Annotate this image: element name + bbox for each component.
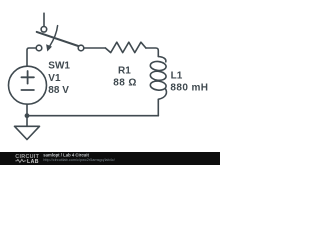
switch SW1 top throw terminal bbox=[41, 27, 47, 33]
wire: bottom rail bbox=[27, 115, 158, 117]
svg-text:880 mH: 880 mH bbox=[170, 83, 208, 94]
switch SW1 common terminal bbox=[78, 45, 84, 51]
resistor R1 bbox=[105, 42, 145, 52]
V1 minus sign bbox=[21, 89, 34, 91]
wire: source bottom to junction bbox=[26, 104, 28, 116]
svg-text:V1: V1 bbox=[48, 73, 61, 84]
svg-text:LAB: LAB bbox=[27, 159, 39, 165]
svg-text:SW1: SW1 bbox=[48, 61, 70, 72]
switch SW1 actuation arrow bbox=[50, 26, 58, 46]
switch SW1 left throw terminal bbox=[36, 45, 42, 51]
svg-text:88 Ω: 88 Ω bbox=[113, 78, 137, 89]
ground bbox=[15, 126, 40, 139]
wire: switch top throw stub bbox=[43, 13, 45, 26]
svg-text:http://circuitlab.com/c/pwc2r5: http://circuitlab.com/c/pwc2r5amsgq/lab4… bbox=[43, 158, 115, 162]
switch SW1 lever bbox=[37, 32, 78, 46]
svg-text:R1: R1 bbox=[118, 65, 131, 76]
node: junction dot bbox=[25, 113, 30, 118]
wire: resistor to top-right corner and down to inductor bbox=[146, 48, 158, 57]
wire: switch left throw to source top bbox=[27, 48, 36, 66]
wire: inductor bottom to corner bbox=[157, 102, 159, 116]
wire: junction to ground bbox=[26, 116, 28, 127]
svg-text:88 V: 88 V bbox=[48, 85, 69, 96]
svg-text:L1: L1 bbox=[171, 71, 183, 82]
voltage source V1 circle bbox=[9, 66, 47, 104]
footer bar bbox=[0, 152, 220, 165]
wire: switch common to resistor bbox=[84, 47, 105, 49]
footer CircuitLab logo bbox=[15, 154, 39, 165]
inductor L1 bbox=[158, 57, 166, 62]
V1 plus sign bbox=[21, 76, 34, 78]
